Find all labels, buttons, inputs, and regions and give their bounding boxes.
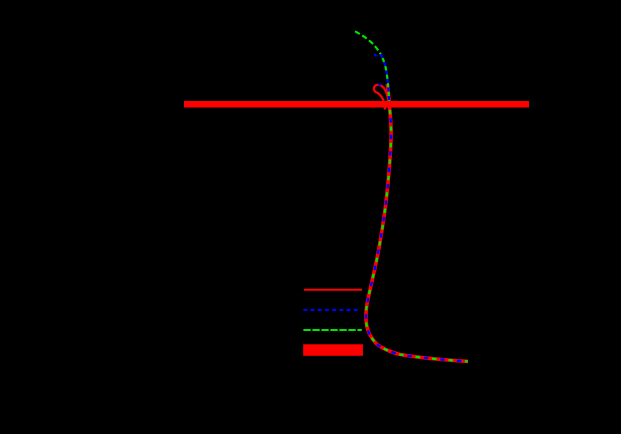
- trajectory green dashed: top segment: [355, 31, 381, 54]
- legend blue dashed line: [303, 309, 357, 311]
- legend ground thick red sample: [303, 344, 363, 356]
- ground thick red line: [184, 101, 529, 108]
- trajectory green dashed: mid segment: [381, 54, 390, 104]
- trajectory red solid main branch: [366, 84, 468, 361]
- red surface spiral (bounce hook): [374, 85, 389, 110]
- blue dash on spiral peak: [378, 83, 381, 85]
- legend green dashed line: [303, 329, 361, 331]
- trajectory blue dashed: mid segment: [381, 54, 390, 104]
- trajectory blue dashed: below-surface segment: [366, 104, 468, 361]
- blue dash at start of mid segment: [374, 54, 376, 56]
- trajectory green dashed: below-surface segment: [366, 104, 468, 361]
- legend red solid line: [304, 289, 362, 291]
